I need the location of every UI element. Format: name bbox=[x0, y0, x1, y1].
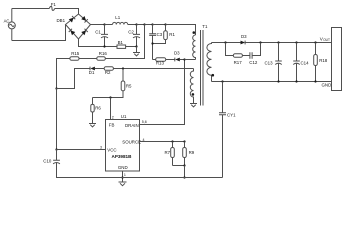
resistor R2 bbox=[104, 67, 113, 76]
svg-text:D1: D1 bbox=[89, 70, 95, 75]
svg-text:L1: L1 bbox=[115, 15, 120, 20]
wire AC top stub bbox=[11, 9, 13, 22]
snubber R17 bbox=[226, 43, 250, 66]
node R9 bottom bbox=[183, 164, 185, 166]
resistor R15 bbox=[70, 51, 80, 61]
svg-text:R5: R5 bbox=[126, 84, 132, 89]
ground under C2 bbox=[133, 47, 140, 56]
resistor R9 bbox=[183, 142, 195, 166]
capacitor C2 bbox=[128, 25, 140, 47]
transformer core bbox=[201, 30, 204, 106]
capacitor C13 bbox=[265, 43, 282, 82]
wire FB pin bbox=[110, 98, 112, 120]
wire HV rail L1 to C2 bbox=[128, 24, 137, 26]
svg-text:D3: D3 bbox=[241, 34, 247, 39]
svg-text:R18: R18 bbox=[319, 58, 328, 63]
wire bridge bottom to B1 bbox=[79, 39, 118, 47]
capacitor C10 bbox=[43, 150, 60, 178]
secondary phase dot bbox=[212, 74, 215, 77]
capacitor C3 bbox=[149, 25, 163, 60]
svg-text:U1: U1 bbox=[121, 114, 127, 119]
wire AC top to fuse bbox=[12, 8, 50, 10]
svg-text:C14: C14 bbox=[301, 60, 310, 65]
capacitor C14 bbox=[293, 43, 309, 82]
svg-text:R15: R15 bbox=[71, 51, 80, 56]
label VOUT bbox=[320, 36, 330, 42]
svg-text:C3: C3 bbox=[157, 32, 163, 37]
transformer T1 primary winding bbox=[193, 35, 196, 60]
transformer T1 label bbox=[202, 24, 208, 29]
node C13 top bbox=[277, 41, 279, 43]
wire fuse to bridge top bbox=[55, 9, 79, 15]
capacitor C1 bbox=[95, 25, 108, 47]
pin 4 label bbox=[143, 138, 145, 142]
svg-text:F1: F1 bbox=[51, 2, 57, 7]
svg-text:C13: C13 bbox=[265, 60, 274, 65]
svg-text:AC: AC bbox=[4, 18, 10, 23]
svg-text:R13: R13 bbox=[156, 61, 165, 66]
svg-text:FB: FB bbox=[109, 123, 115, 128]
wire secondary top after diode bbox=[245, 42, 331, 44]
node C13 bottom bbox=[277, 80, 279, 82]
label U1 bbox=[121, 114, 127, 119]
svg-text:C1: C1 bbox=[95, 29, 101, 34]
bridge rectifier DB1 bbox=[57, 14, 91, 39]
node C2 top bbox=[135, 23, 137, 25]
wire HV rail riser to C3 bbox=[145, 24, 153, 26]
fuse F1 bbox=[49, 2, 56, 11]
svg-text:DRAIN: DRAIN bbox=[125, 123, 139, 128]
resistor R1 bbox=[153, 25, 176, 44]
node C1 top bbox=[103, 23, 105, 25]
svg-text:R9: R9 bbox=[189, 150, 195, 155]
node R1 top bbox=[164, 23, 166, 25]
wire AC bottom to bridge left bbox=[12, 25, 66, 41]
svg-text:VCC: VCC bbox=[107, 148, 116, 153]
resistor R18 bbox=[314, 43, 328, 82]
wire R15 to left rail bbox=[57, 59, 70, 89]
node FB bbox=[109, 96, 111, 98]
pin 3 label bbox=[100, 146, 102, 150]
svg-text:D3: D3 bbox=[174, 51, 180, 56]
resistor R5 bbox=[93, 69, 133, 98]
node clamp join bbox=[151, 42, 153, 44]
wire left rail middle bbox=[56, 89, 58, 150]
node R18 bottom bbox=[314, 80, 316, 82]
wire R7 R9 bottoms bbox=[173, 165, 185, 167]
wire HV rail R1 to T1 primary top bbox=[166, 25, 196, 36]
transformer T1 secondary winding bbox=[207, 43, 212, 82]
svg-text:C2: C2 bbox=[128, 29, 134, 34]
wire startup riser bbox=[105, 25, 144, 59]
diode D3 primary clamp bbox=[174, 51, 185, 62]
wire HV rail C1 to L1 bbox=[105, 24, 113, 26]
svg-text:GND: GND bbox=[118, 165, 128, 170]
node snubber right bbox=[259, 41, 261, 43]
resistor R6 bbox=[91, 98, 102, 124]
pin 5,6 label bbox=[142, 120, 147, 124]
IC U1 AP3981B box bbox=[106, 120, 142, 172]
node GND pin on rail bbox=[121, 176, 123, 178]
wire GND pin bbox=[122, 171, 124, 182]
node VCC rail D1 tap bbox=[55, 87, 57, 89]
ground under R6 bbox=[89, 124, 96, 127]
pin 1 label bbox=[124, 173, 126, 177]
wire primary ground rail bbox=[57, 163, 223, 178]
AC source bbox=[4, 18, 16, 29]
wire R2 to aux winding bbox=[113, 68, 193, 70]
svg-text:2: 2 bbox=[112, 115, 114, 119]
svg-text:5,6: 5,6 bbox=[142, 120, 147, 124]
svg-text:B1: B1 bbox=[118, 40, 124, 45]
transformer T1 aux winding bbox=[190, 69, 193, 104]
svg-text:R2: R2 bbox=[105, 70, 111, 75]
wire secondary top bbox=[212, 42, 241, 44]
wire bridge right to HV rail bbox=[91, 24, 105, 26]
wire R16 to R15 bbox=[79, 58, 97, 60]
node VCC pin tap bbox=[55, 148, 57, 150]
node C14 bottom bbox=[295, 80, 297, 82]
node R18 top bbox=[314, 41, 316, 43]
svg-text:CY1: CY1 bbox=[227, 112, 236, 117]
bridge diode top-left bbox=[69, 16, 76, 23]
wire DRAIN pin to drain node bbox=[140, 60, 185, 125]
node R7 top bbox=[171, 140, 173, 142]
svg-text:GND: GND bbox=[322, 83, 332, 88]
resistor R7 bbox=[165, 142, 175, 166]
wire HV rail C3 to R1 bbox=[153, 24, 166, 26]
wire secondary bottom bbox=[212, 81, 332, 83]
svg-text:SOURCE: SOURCE bbox=[122, 139, 141, 144]
bridge diode bottom-right bbox=[81, 29, 88, 36]
svg-text:R7: R7 bbox=[165, 150, 171, 155]
wire D1 branch corner bbox=[57, 69, 91, 89]
svg-text:AP3981B: AP3981B bbox=[112, 154, 133, 159]
svg-text:DB1: DB1 bbox=[57, 18, 66, 23]
diode D1 bbox=[89, 67, 104, 76]
node C3 top bbox=[151, 23, 153, 25]
svg-text:C10: C10 bbox=[43, 159, 52, 164]
node C14 top bbox=[295, 41, 297, 43]
svg-text:1: 1 bbox=[124, 173, 126, 177]
aux phase dot bbox=[192, 93, 195, 96]
wire AC bottom stub bbox=[11, 29, 13, 41]
wire HV rail C2 to riser bbox=[137, 24, 145, 26]
ground under U1 bbox=[119, 182, 127, 186]
pin 2 label bbox=[112, 115, 114, 119]
label GND output bbox=[322, 83, 332, 88]
resistor R16 bbox=[97, 51, 108, 61]
capacitor CY1 bbox=[219, 82, 236, 178]
svg-text:R16: R16 bbox=[99, 51, 108, 56]
node drain bbox=[183, 58, 185, 60]
wire drain node to primary bottom bbox=[185, 59, 196, 61]
primary phase dot bbox=[193, 31, 196, 34]
diode D3 secondary bbox=[241, 34, 248, 44]
svg-text:R1: R1 bbox=[169, 32, 175, 37]
resistor R13 bbox=[153, 58, 175, 66]
node R9 top bbox=[183, 140, 185, 142]
bridge diode bottom-left bbox=[69, 29, 76, 36]
svg-text:C12: C12 bbox=[249, 60, 258, 65]
node R5 top bbox=[122, 67, 124, 69]
inductor L1 bbox=[113, 15, 128, 24]
node source drop on rail bbox=[183, 176, 185, 178]
bead B1 bbox=[117, 40, 126, 48]
output connector bbox=[332, 28, 342, 91]
svg-text:R6: R6 bbox=[95, 105, 101, 110]
svg-text:R17: R17 bbox=[234, 60, 243, 65]
node C1 bottom bbox=[103, 45, 105, 47]
wire B1 to C2 bottom bbox=[126, 46, 137, 48]
node startup riser bbox=[143, 23, 145, 25]
snubber C12 bbox=[249, 43, 260, 66]
node CY1 top bbox=[221, 80, 223, 82]
bridge diode top-right bbox=[81, 16, 88, 23]
wire R9 bottom to ground rail bbox=[184, 166, 186, 178]
wire VCC pin bbox=[57, 149, 106, 151]
node snubber left bbox=[224, 41, 226, 43]
svg-text:T1: T1 bbox=[202, 24, 208, 29]
node C2 bottom bbox=[135, 45, 137, 47]
svg-text:OUT: OUT bbox=[323, 38, 330, 42]
wire SOURCE pin bbox=[140, 141, 185, 143]
ground under aux winding bbox=[190, 104, 197, 107]
